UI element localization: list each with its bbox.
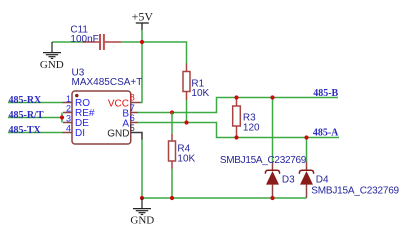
svg-text:GND: GND (107, 128, 129, 139)
svg-text:+5V: +5V (132, 10, 154, 24)
svg-text:1: 1 (66, 94, 71, 104)
svg-text:8: 8 (130, 92, 135, 102)
svg-text:DI: DI (75, 128, 85, 139)
svg-text:4: 4 (66, 123, 71, 133)
pin 6 A (122, 113, 138, 129)
svg-text:485-R/T: 485-R/T (9, 110, 44, 121)
svg-text:10K: 10K (177, 153, 195, 164)
svg-text:120: 120 (243, 123, 260, 134)
svg-text:2: 2 (66, 103, 71, 113)
junction D4 riser on A wire (304, 135, 308, 139)
svg-text:485-A: 485-A (313, 127, 339, 138)
wire R4 bottom to ground bus (171, 169, 173, 199)
wire ground bus y=198 (142, 197, 307, 199)
pin 2 RE# (63, 103, 95, 119)
wire pin5 riser down to ground bus (141, 140, 143, 199)
svg-text:3: 3 (66, 113, 71, 123)
junction D3 anode on ground bus (270, 196, 274, 200)
wire top rail y=42 from C11 right lead to corner, down to R1 (121, 42, 187, 64)
diode D3 TVS SMBJ15A (265, 162, 295, 199)
junction R4 bottom on ground bus (170, 196, 174, 200)
pin 8 VCC (108, 92, 141, 109)
junction D3 riser on B wire (270, 95, 274, 99)
svg-text:MAX485CSA+T: MAX485CSA+T (72, 77, 143, 88)
svg-text:485-RX: 485-RX (9, 95, 43, 106)
pin 4 DI (63, 123, 86, 139)
svg-text:D4: D4 (316, 175, 329, 186)
svg-text:SMBJ15A_C232769: SMBJ15A_C232769 (311, 186, 399, 197)
svg-text:SMBJ15A_C232769: SMBJ15A_C232769 (220, 155, 307, 166)
svg-text:100nF: 100nF (70, 34, 98, 45)
junction R3 bottom on A wire (234, 135, 238, 139)
capacitor C11 (70, 25, 121, 50)
svg-text:485-B: 485-B (313, 88, 338, 99)
wire +5V rail down to pin 8 (141, 30, 143, 103)
resistor R3 termination (233, 98, 260, 138)
diode D4 TVS SMBJ15A (299, 162, 329, 199)
pin 5 GND (107, 123, 142, 140)
wire B net: pin7 right, up, right to 485-B (138, 98, 338, 113)
pin 7 B (122, 103, 138, 119)
node 485-TX wire (8, 132, 63, 134)
node junction +5V/C11/R1 rail (140, 40, 144, 44)
svg-text:7: 7 (130, 103, 135, 113)
ground (bottom) (133, 198, 151, 215)
svg-text:GND: GND (130, 215, 154, 227)
svg-text:D3: D3 (282, 175, 295, 186)
svg-text:10K: 10K (191, 88, 209, 99)
svg-text:5: 5 (130, 123, 135, 133)
IC U3 MAX485CSA+T body (72, 68, 143, 145)
node 485-R/T wire with fork to pins 2,3 (8, 110, 64, 123)
pin 1 RO (63, 94, 91, 109)
junction R1 bottom on A wire (184, 120, 188, 124)
svg-text:485-TX: 485-TX (9, 125, 42, 136)
resistor R1 (183, 64, 210, 101)
junction R3 top on B wire (234, 95, 238, 99)
wire D3 riser from B wire down (272, 98, 274, 162)
resistor R4 (169, 113, 196, 169)
+5V power symbol (132, 10, 154, 30)
wire D4 riser from A wire down (306, 138, 308, 162)
node 485-RX wire (8, 102, 63, 104)
junction ground bus at GND (140, 196, 144, 200)
ground (top-left) (43, 42, 61, 59)
svg-text:6: 6 (130, 113, 135, 123)
wire R1 bottom to A-net junction (186, 100, 188, 123)
junction R4 top on B wire (170, 110, 174, 114)
wire A net: pin6 right, down, right to 485-A (138, 123, 339, 138)
wire top rail y=42 from GND stub to C11 left lead (52, 41, 83, 43)
svg-text:GND: GND (40, 59, 64, 71)
pin 3 DE (63, 113, 89, 129)
